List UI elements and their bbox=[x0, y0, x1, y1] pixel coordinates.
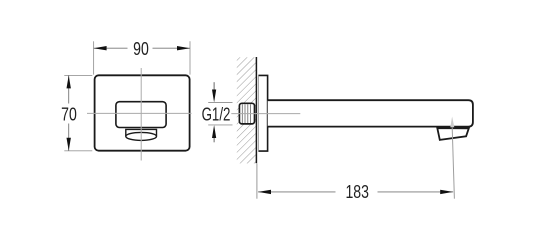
side view: pipe centerline bbox=[231, 113, 300, 115]
dimension 90: right arrow bbox=[177, 46, 190, 50]
dimension 183: dimension line bbox=[258, 191, 336, 193]
front view: spout body bbox=[116, 102, 166, 128]
front view: horizontal centerline bbox=[87, 112, 192, 114]
front view: outlet neck bbox=[126, 129, 157, 136]
dimension 90: left extension line bbox=[93, 41, 95, 74]
front view: aerator ellipse bbox=[126, 132, 157, 140]
side view: thread crest lines bbox=[242, 104, 250, 123]
side view: wall face line bbox=[255, 57, 257, 163]
side view: wall hatching bbox=[237, 57, 257, 163]
dimension G1/2: lower arrow bbox=[212, 125, 216, 138]
dimension 70: bottom arrow bbox=[67, 138, 71, 151]
side view: G1/2 thread block bbox=[239, 103, 254, 124]
side view: outlet axis faint arrow bbox=[450, 117, 454, 128]
dimension 90: dimension line bbox=[94, 47, 128, 49]
dimension G1/2: upper arrow line bbox=[213, 82, 215, 91]
dimension 183: left extension line bbox=[256, 164, 258, 199]
dimension 90: right extension line bbox=[189, 41, 191, 74]
svg-text:70: 70 bbox=[61, 105, 77, 125]
side view: flange bbox=[258, 75, 267, 151]
front view: vertical centerline bbox=[140, 68, 142, 161]
dimension G1/2: lower arrow line bbox=[213, 138, 215, 143]
side view: spout pipe bbox=[268, 100, 473, 126]
dimension G1/2: bottom extension line bbox=[208, 124, 232, 126]
dimension 70: top arrow bbox=[67, 75, 71, 88]
dimension 70: dimension line bbox=[68, 75, 70, 103]
dimension 70: top extension line bbox=[64, 74, 92, 76]
side view: outlet axis faint line bbox=[452, 128, 454, 199]
svg-text:G1/2: G1/2 bbox=[202, 104, 231, 125]
side view: flange left edge (faint) bbox=[257, 76, 259, 151]
dimension G1/2: upper arrow bbox=[212, 90, 216, 103]
dimension 183: left arrow bbox=[258, 190, 271, 194]
side view: angled outlet at spout tip bbox=[437, 128, 469, 140]
dimension 70: bottom extension line bbox=[64, 150, 92, 152]
svg-text:183: 183 bbox=[345, 182, 368, 202]
dimension 183: right arrow bbox=[440, 190, 453, 194]
svg-text:90: 90 bbox=[133, 39, 149, 59]
dimension 90: left arrow bbox=[94, 46, 107, 50]
front view: wall plate outline bbox=[95, 75, 190, 150]
dimension G1/2: top extension line bbox=[208, 102, 232, 104]
